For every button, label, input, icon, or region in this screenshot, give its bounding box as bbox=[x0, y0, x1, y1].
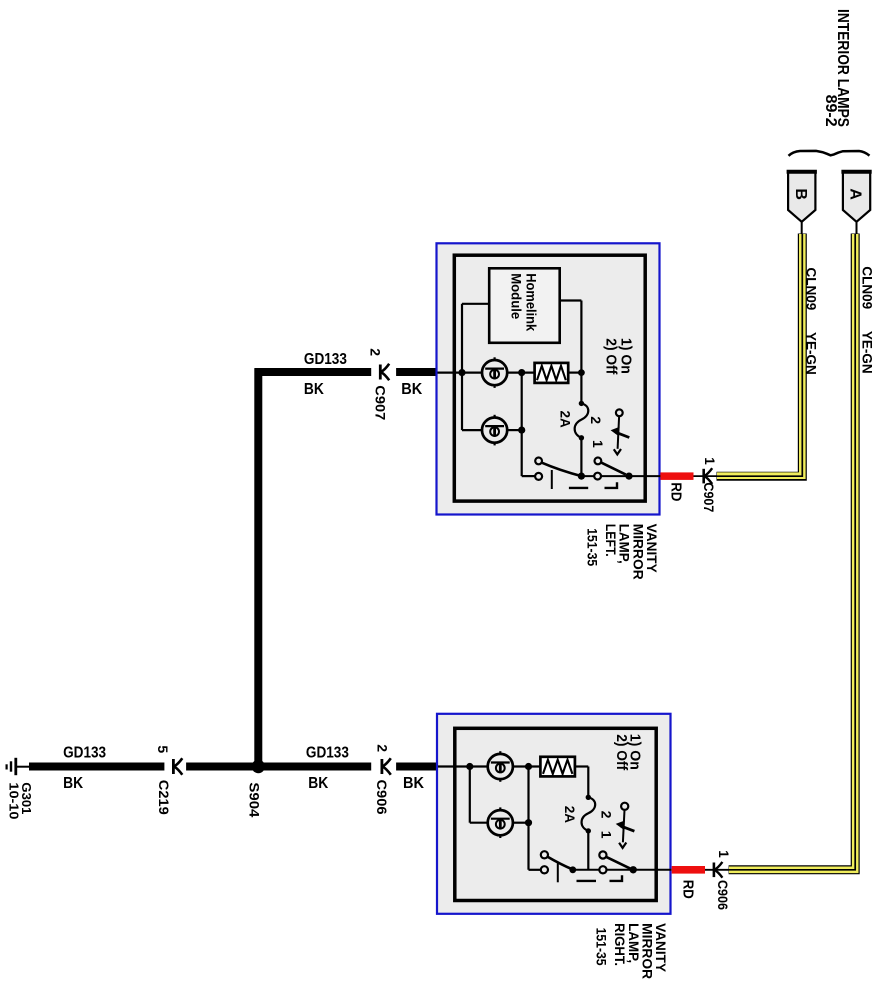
svg-text:CLN09: CLN09 bbox=[859, 266, 874, 309]
svg-text:C906: C906 bbox=[374, 780, 389, 816]
svg-text:BK: BK bbox=[63, 775, 83, 792]
svg-text:89-2: 89-2 bbox=[822, 95, 839, 127]
svg-text:LEFT.: LEFT. bbox=[603, 524, 618, 557]
svg-text:RIGHT.: RIGHT. bbox=[612, 923, 627, 966]
svg-text:2) Off: 2) Off bbox=[602, 338, 618, 374]
svg-text:GD133: GD133 bbox=[306, 744, 349, 761]
svg-text:VANITY: VANITY bbox=[644, 524, 659, 573]
svg-text:151-35: 151-35 bbox=[594, 928, 609, 966]
svg-text:2: 2 bbox=[367, 348, 383, 356]
svg-text:1: 1 bbox=[702, 457, 717, 465]
svg-text:YE-GN: YE-GN bbox=[859, 331, 874, 374]
svg-text:2: 2 bbox=[374, 744, 390, 752]
svg-text:RD: RD bbox=[668, 482, 685, 501]
svg-text:YE-GN: YE-GN bbox=[803, 332, 818, 375]
svg-text:2A: 2A bbox=[562, 806, 577, 824]
svg-text:CLN09: CLN09 bbox=[803, 268, 818, 311]
svg-text:Homelink: Homelink bbox=[523, 273, 539, 331]
svg-text:B: B bbox=[792, 188, 809, 200]
svg-text:GD133: GD133 bbox=[304, 351, 347, 368]
svg-text:10-10: 10-10 bbox=[7, 782, 22, 819]
svg-text:1: 1 bbox=[599, 831, 615, 839]
svg-text:Module: Module bbox=[509, 273, 525, 319]
svg-text:1) On: 1) On bbox=[617, 338, 633, 374]
svg-text:C219: C219 bbox=[156, 780, 171, 815]
svg-text:A: A bbox=[847, 188, 864, 200]
svg-text:S904: S904 bbox=[247, 782, 262, 818]
svg-text:C906: C906 bbox=[715, 880, 730, 910]
svg-text:RD: RD bbox=[680, 880, 697, 899]
svg-text:C907: C907 bbox=[373, 385, 388, 420]
svg-text:GD133: GD133 bbox=[63, 744, 106, 761]
svg-text:BK: BK bbox=[403, 775, 424, 792]
svg-text:151-35: 151-35 bbox=[585, 528, 600, 566]
svg-text:5: 5 bbox=[155, 745, 171, 753]
svg-text:1: 1 bbox=[590, 440, 606, 448]
svg-text:2A: 2A bbox=[558, 411, 573, 429]
svg-text:BK: BK bbox=[308, 775, 328, 792]
svg-text:C907: C907 bbox=[701, 482, 716, 512]
svg-text:BK: BK bbox=[304, 381, 324, 398]
svg-text:1: 1 bbox=[716, 850, 731, 858]
svg-text:2: 2 bbox=[588, 416, 604, 424]
svg-text:BK: BK bbox=[401, 381, 422, 398]
svg-text:2) Off: 2) Off bbox=[613, 734, 629, 770]
svg-text:2: 2 bbox=[599, 811, 615, 819]
